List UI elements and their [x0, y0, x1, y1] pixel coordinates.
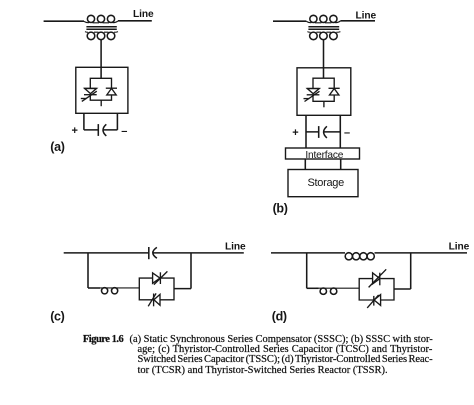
wire branch-right (c) — [174, 253, 191, 289]
transformer T1 secondary winding (a) — [85, 32, 118, 40]
thyristor valve box (c) — [139, 278, 174, 300]
diode D1 (a) — [106, 88, 117, 95]
converter box U2 (b) — [297, 68, 351, 116]
converter dc stub (b) — [323, 101, 325, 107]
svg-text:+: + — [292, 127, 298, 139]
storage box (b) — [288, 170, 358, 197]
wire branch-drop-left (c) — [87, 253, 89, 288]
svg-text:Storage: Storage — [308, 177, 345, 189]
capacitor C2 (b) — [319, 126, 327, 138]
caption figure 1.6 — [83, 334, 123, 345]
svg-text:Line: Line — [449, 241, 470, 252]
thyristor valve box (d) — [359, 279, 394, 300]
wire transformer-to-converter (b) — [323, 40, 325, 78]
converter bridge inner rect (b) — [313, 78, 334, 101]
converter box U1 (a) — [76, 67, 128, 113]
reactor L1 (c) — [100, 288, 139, 294]
svg-text:Interface: Interface — [305, 150, 343, 161]
capacitor C1 (a) — [98, 124, 106, 136]
thyristor T-down (d) — [367, 295, 380, 308]
wire branch-left (c) — [88, 287, 100, 289]
wire interface-to-storage left (b) — [304, 159, 306, 170]
wire line-right (c) — [153, 252, 244, 254]
reactor L2 series (d) — [345, 253, 374, 260]
wire dc-left (a) — [84, 113, 98, 130]
svg-text:–: – — [344, 127, 350, 139]
svg-text:+: + — [72, 125, 78, 137]
transformer T1 core (a) — [86, 27, 116, 30]
GTO valve Q1 (a) — [81, 88, 97, 101]
wire line-left (c) — [64, 252, 149, 254]
capacitor C3 series (c) — [149, 247, 157, 259]
svg-text:Line: Line — [133, 9, 154, 20]
GTO valve Q2 (b) — [304, 89, 320, 102]
transformer T2 core (b) — [308, 27, 339, 30]
thyristor T-up (d) — [369, 269, 387, 287]
svg-text:(a): (a) — [50, 140, 64, 154]
interface box (b) — [286, 148, 360, 159]
wire dc-left (b) — [306, 115, 319, 148]
converter bridge inner rect (a) — [90, 78, 111, 100]
reactor L3 (d) — [316, 288, 359, 294]
thyristor T-down (c) — [148, 293, 160, 306]
wire line-left (a) — [44, 20, 84, 22]
svg-text:–: – — [121, 126, 127, 138]
wire line-left (b) — [273, 20, 306, 22]
svg-text:Line: Line — [356, 10, 377, 21]
wire branch-right (d) — [394, 253, 411, 289]
svg-text:(d): (d) — [272, 310, 287, 324]
wire line-right (d) — [375, 252, 468, 254]
diode D2 (b) — [329, 88, 340, 95]
svg-text:(b): (b) — [273, 201, 288, 215]
wire interface-to-storage right (b) — [340, 159, 342, 170]
wire line-right (a) — [118, 20, 152, 22]
converter dc stub (a) — [100, 100, 102, 106]
wire dc-right (a) — [103, 113, 117, 130]
transformer T2 secondary winding (b) — [307, 32, 340, 40]
svg-text:Line: Line — [225, 241, 246, 252]
svg-text:(c): (c) — [50, 310, 64, 324]
wire dc-right (b) — [324, 115, 341, 148]
wire line-left (d) — [271, 252, 345, 254]
transformer T2 primary winding (b) — [306, 15, 340, 23]
transformer T1 primary winding (a) — [84, 15, 118, 23]
wire branch-drop-left (d) — [306, 253, 308, 288]
wire line-right (b) — [340, 20, 375, 22]
wire transformer-to-converter (a) — [100, 40, 102, 79]
wire branch-left (d) — [307, 287, 319, 289]
thyristor T-up (c) — [153, 271, 168, 284]
